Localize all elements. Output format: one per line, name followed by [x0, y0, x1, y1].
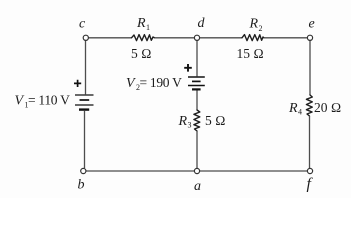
- battery V2 plate long: [188, 85, 205, 87]
- wire: d to R2: [200, 37, 242, 39]
- svg-text:= 190 V: = 190 V: [140, 75, 183, 90]
- svg-text:3: 3: [188, 121, 192, 130]
- svg-text:f: f: [307, 176, 314, 193]
- wire right: R4 down to f: [309, 116, 311, 168]
- resistor R2: [242, 35, 264, 41]
- wire left: c down to battery V1: [85, 41, 87, 95]
- plus sign V2: [184, 64, 192, 72]
- svg-text:V: V: [15, 94, 25, 109]
- svg-text:1: 1: [146, 23, 150, 32]
- wire mid: R3 down to a: [196, 131, 198, 168]
- svg-text:e: e: [309, 17, 315, 32]
- resistor R1: [132, 35, 155, 41]
- svg-text:4: 4: [298, 108, 302, 117]
- svg-text:= 110 V: = 110 V: [28, 93, 70, 108]
- svg-text:15 Ω: 15 Ω: [237, 46, 264, 61]
- node b: [81, 168, 86, 173]
- plus sign V1: [74, 80, 81, 87]
- wire mid: battery V2 down to R3: [196, 91, 198, 111]
- wire mid: d down to battery V2: [196, 41, 198, 77]
- svg-text:R: R: [178, 114, 188, 129]
- wire: R2 to e: [264, 37, 307, 39]
- resistor R4 vertical: [306, 95, 312, 116]
- battery V1 plate short: [80, 99, 90, 101]
- node f: [307, 168, 312, 173]
- battery V1 plate long: [75, 104, 94, 106]
- wire bottom: a to f: [200, 170, 307, 172]
- svg-text:R: R: [249, 17, 259, 32]
- svg-text:5 Ω: 5 Ω: [205, 113, 226, 128]
- wire bottom: b to a: [86, 170, 194, 172]
- battery V2 plate short thick: [192, 88, 201, 90]
- battery V1 plate long top: [75, 94, 94, 96]
- svg-text:c: c: [79, 17, 86, 32]
- battery V2 plate long top: [188, 76, 205, 78]
- node c: [83, 35, 88, 40]
- wire right: e down to R4: [309, 41, 311, 96]
- wire: R1 to d: [155, 37, 195, 39]
- svg-text:V: V: [126, 76, 136, 91]
- wire left: battery V1 down to b: [84, 111, 86, 168]
- node e: [307, 35, 312, 40]
- svg-text:R: R: [136, 16, 146, 31]
- svg-text:2: 2: [259, 24, 263, 33]
- node d: [194, 35, 199, 40]
- svg-text:a: a: [194, 179, 201, 194]
- svg-text:d: d: [198, 16, 206, 31]
- node a: [194, 168, 199, 173]
- svg-text:R: R: [288, 101, 298, 116]
- battery V1 plate short thick: [79, 108, 89, 110]
- wire top: c to R1: [89, 37, 132, 39]
- battery V2 plate short: [192, 80, 201, 82]
- resistor R3 vertical: [194, 110, 200, 131]
- svg-text:b: b: [78, 178, 85, 193]
- svg-text:5 Ω: 5 Ω: [131, 46, 152, 61]
- svg-text:20 Ω: 20 Ω: [314, 100, 341, 115]
